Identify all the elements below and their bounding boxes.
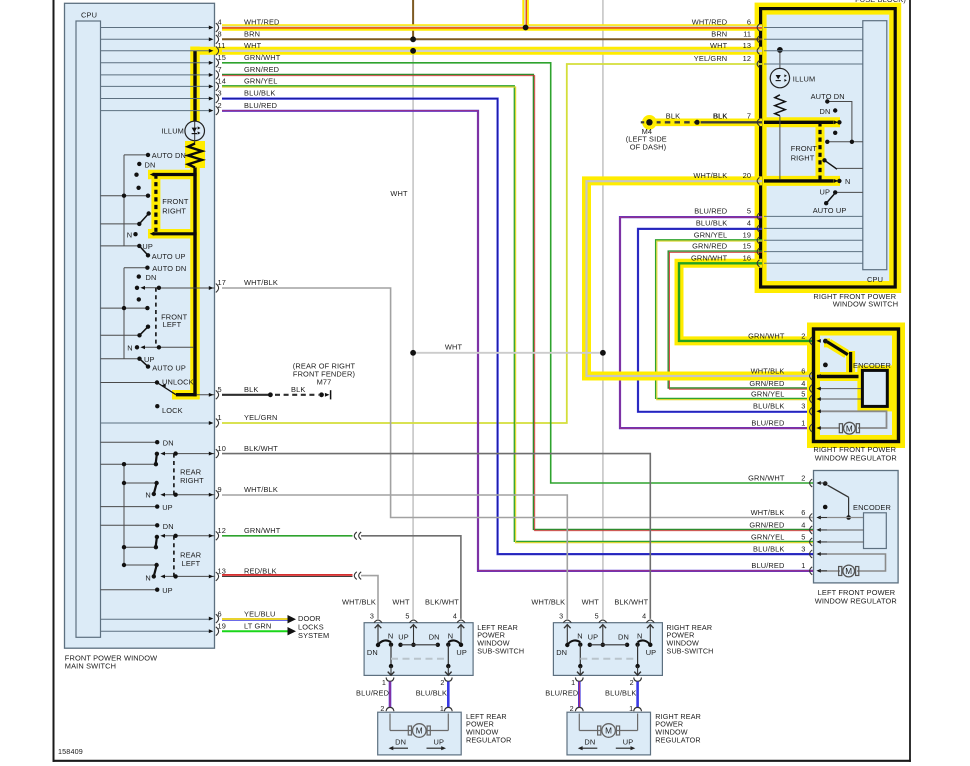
svg-text:BLK/WHT: BLK/WHT	[614, 597, 648, 606]
svg-text:WINDOW SWITCH: WINDOW SWITCH	[833, 299, 899, 308]
svg-text:GRN/RED: GRN/RED	[749, 379, 784, 388]
svg-text:6: 6	[801, 508, 805, 517]
svg-text:N: N	[127, 231, 133, 240]
svg-text:N: N	[637, 631, 643, 640]
svg-text:ENCODER: ENCODER	[853, 361, 891, 370]
svg-text:WHT: WHT	[244, 41, 262, 50]
svg-text:CPU: CPU	[867, 275, 883, 284]
svg-text:9: 9	[218, 485, 222, 494]
svg-text:N: N	[845, 177, 851, 186]
svg-text:M: M	[846, 424, 853, 433]
svg-text:GRN/RED: GRN/RED	[244, 65, 279, 74]
svg-text:BLK: BLK	[713, 111, 727, 120]
svg-text:M: M	[416, 727, 423, 736]
svg-text:4: 4	[453, 612, 457, 621]
svg-text:DN: DN	[395, 737, 406, 746]
svg-text:2: 2	[380, 704, 384, 713]
svg-text:UP: UP	[162, 503, 173, 512]
svg-text:10: 10	[218, 444, 227, 453]
svg-text:5: 5	[405, 612, 409, 621]
svg-text:2: 2	[801, 473, 805, 482]
svg-text:2: 2	[630, 678, 634, 687]
svg-text:BLU/BLK: BLU/BLK	[605, 689, 636, 698]
svg-text:AUTO UP: AUTO UP	[152, 364, 186, 373]
svg-text:BLU/RED: BLU/RED	[545, 689, 578, 698]
svg-text:RIGHT: RIGHT	[180, 476, 204, 485]
svg-text:BLU/BLK: BLU/BLK	[753, 402, 784, 411]
svg-text:N: N	[145, 491, 151, 500]
svg-text:WINDOW REGULATOR: WINDOW REGULATOR	[815, 596, 897, 605]
svg-text:DN: DN	[163, 522, 174, 531]
svg-text:UP: UP	[588, 633, 599, 642]
svg-text:WHT/BLK: WHT/BLK	[531, 597, 565, 606]
svg-text:OF DASH): OF DASH)	[630, 142, 667, 151]
svg-text:BRN: BRN	[244, 30, 260, 39]
svg-text:BLU/BLK: BLU/BLK	[753, 544, 784, 553]
svg-text:N: N	[388, 631, 394, 640]
svg-text:GRN/YEL: GRN/YEL	[694, 230, 728, 239]
svg-text:AUTO UP: AUTO UP	[152, 252, 186, 261]
svg-text:WHT: WHT	[582, 597, 600, 606]
svg-text:BLU/BLK: BLU/BLK	[696, 218, 727, 227]
svg-text:FRONT: FRONT	[162, 197, 189, 206]
svg-text:7: 7	[218, 65, 222, 74]
svg-text:BLK: BLK	[291, 385, 305, 394]
svg-text:BLU/RED: BLU/RED	[751, 561, 784, 570]
svg-text:GRN/RED: GRN/RED	[749, 520, 784, 529]
svg-text:LEFT: LEFT	[163, 320, 182, 329]
svg-text:BLU/RED: BLU/RED	[751, 418, 784, 427]
svg-text:SUB-SWITCH: SUB-SWITCH	[477, 646, 524, 655]
svg-text:UP: UP	[646, 648, 657, 657]
svg-text:19: 19	[743, 230, 752, 239]
svg-text:WHT/RED: WHT/RED	[244, 18, 280, 27]
svg-text:GRN/WHT: GRN/WHT	[244, 526, 281, 535]
svg-text:WHT/BLK: WHT/BLK	[244, 278, 278, 287]
svg-text:15: 15	[743, 242, 752, 251]
svg-text:UNLOCK: UNLOCK	[162, 378, 194, 387]
svg-text:158409: 158409	[58, 747, 83, 756]
svg-text:LOCK: LOCK	[162, 406, 183, 415]
svg-text:ILLUM: ILLUM	[793, 75, 816, 84]
svg-text:3: 3	[218, 89, 222, 98]
svg-text:GRN/YEL: GRN/YEL	[244, 77, 278, 86]
svg-text:12: 12	[743, 54, 752, 63]
svg-text:UP: UP	[434, 737, 445, 746]
svg-text:17: 17	[218, 278, 227, 287]
svg-text:5: 5	[218, 385, 222, 394]
svg-text:BLK/WHT: BLK/WHT	[425, 597, 459, 606]
svg-text:3: 3	[559, 612, 563, 621]
svg-text:BRN: BRN	[711, 29, 727, 38]
svg-text:5: 5	[801, 389, 805, 398]
svg-text:FRONT: FRONT	[791, 144, 818, 153]
svg-text:RIGHT: RIGHT	[791, 153, 815, 162]
svg-text:1: 1	[801, 418, 805, 427]
svg-text:LEFT: LEFT	[182, 559, 201, 568]
svg-text:WHT/BLK: WHT/BLK	[751, 366, 785, 375]
svg-text:2: 2	[440, 678, 444, 687]
svg-text:1: 1	[218, 413, 222, 422]
svg-text:4: 4	[801, 520, 805, 529]
svg-text:N: N	[145, 574, 151, 583]
svg-text:GRN/WHT: GRN/WHT	[244, 53, 281, 62]
svg-text:11: 11	[218, 41, 226, 50]
svg-text:BLK: BLK	[244, 385, 258, 394]
svg-text:LT GRN: LT GRN	[244, 621, 271, 630]
svg-text:REGULATOR: REGULATOR	[466, 735, 511, 744]
svg-text:DN: DN	[584, 737, 595, 746]
svg-text:GRN/WHT: GRN/WHT	[748, 473, 785, 482]
svg-text:DN: DN	[367, 648, 378, 657]
svg-text:1: 1	[629, 704, 633, 713]
svg-text:DN: DN	[163, 439, 174, 448]
svg-text:RED/BLK: RED/BLK	[244, 567, 277, 576]
svg-text:1: 1	[382, 678, 386, 687]
svg-text:2: 2	[801, 331, 805, 340]
svg-text:WINDOW REGULATOR: WINDOW REGULATOR	[815, 454, 897, 463]
svg-text:WHT: WHT	[392, 597, 410, 606]
svg-text:CPU: CPU	[81, 10, 97, 19]
svg-text:15: 15	[218, 53, 227, 62]
svg-text:WHT/BLK: WHT/BLK	[244, 485, 278, 494]
svg-text:GRN/WHT: GRN/WHT	[748, 331, 785, 340]
svg-text:4: 4	[747, 218, 751, 227]
svg-text:UP: UP	[142, 242, 153, 251]
svg-text:GRN/YEL: GRN/YEL	[751, 389, 785, 398]
svg-text:2: 2	[570, 704, 574, 713]
svg-text:WHT: WHT	[710, 41, 728, 50]
svg-text:M: M	[845, 567, 852, 576]
svg-text:WHT: WHT	[445, 343, 463, 352]
svg-text:3: 3	[801, 402, 805, 411]
svg-text:MAIN SWITCH: MAIN SWITCH	[65, 662, 116, 671]
svg-text:BLU/RED: BLU/RED	[244, 101, 277, 110]
svg-text:WHT/RED: WHT/RED	[692, 18, 728, 27]
svg-text:1: 1	[571, 678, 575, 687]
svg-text:5: 5	[595, 612, 599, 621]
svg-text:M77: M77	[317, 378, 332, 387]
svg-text:DN: DN	[146, 273, 157, 282]
svg-text:WHT/BLK: WHT/BLK	[693, 171, 727, 180]
svg-text:N: N	[448, 631, 454, 640]
svg-text:5: 5	[747, 206, 751, 215]
svg-text:YEL/BLU: YEL/BLU	[244, 609, 275, 618]
svg-text:14: 14	[218, 77, 227, 86]
svg-text:SYSTEM: SYSTEM	[298, 631, 329, 640]
svg-text:SUB-SWITCH: SUB-SWITCH	[667, 646, 714, 655]
svg-text:GRN/WHT: GRN/WHT	[691, 253, 728, 262]
svg-text:12: 12	[218, 526, 227, 535]
svg-text:4: 4	[801, 379, 805, 388]
svg-text:GRN/RED: GRN/RED	[692, 242, 727, 251]
svg-text:5: 5	[801, 532, 805, 541]
svg-text:6: 6	[747, 18, 751, 27]
svg-text:3: 3	[801, 544, 805, 553]
svg-text:8: 8	[218, 30, 222, 39]
svg-text:6: 6	[218, 609, 222, 618]
svg-text:19: 19	[218, 621, 227, 630]
svg-text:BLK/WHT: BLK/WHT	[244, 444, 278, 453]
svg-text:AUTO DN: AUTO DN	[152, 151, 186, 160]
svg-text:UP: UP	[398, 633, 409, 642]
svg-text:4: 4	[218, 18, 222, 27]
svg-text:ILLUM: ILLUM	[161, 126, 184, 135]
svg-text:WHT/BLK: WHT/BLK	[342, 597, 376, 606]
svg-text:WHT: WHT	[390, 189, 408, 198]
svg-text:AUTO DN: AUTO DN	[152, 264, 186, 273]
svg-text:YEL/GRN: YEL/GRN	[244, 413, 278, 422]
svg-text:13: 13	[218, 567, 227, 576]
svg-text:7: 7	[747, 112, 751, 121]
svg-text:REGULATOR: REGULATOR	[655, 735, 700, 744]
svg-text:BLU/RED: BLU/RED	[694, 206, 727, 215]
svg-text:UP: UP	[820, 187, 831, 196]
svg-text:DN: DN	[145, 160, 156, 169]
svg-text:2: 2	[218, 101, 222, 110]
svg-text:AUTO DN: AUTO DN	[811, 92, 845, 101]
svg-text:11: 11	[743, 29, 751, 38]
svg-text:RIGHT: RIGHT	[162, 206, 186, 215]
svg-text:1: 1	[440, 704, 444, 713]
svg-text:1: 1	[801, 561, 805, 570]
svg-text:6: 6	[801, 366, 805, 375]
svg-text:GRN/YEL: GRN/YEL	[751, 532, 785, 541]
svg-text:13: 13	[743, 41, 752, 50]
svg-text:BLU/RED: BLU/RED	[356, 689, 389, 698]
svg-text:DN: DN	[429, 633, 440, 642]
svg-text:DN: DN	[556, 648, 567, 657]
svg-text:YEL/GRN: YEL/GRN	[694, 54, 728, 63]
svg-text:WHT/BLK: WHT/BLK	[751, 508, 785, 517]
svg-text:BLU/BLK: BLU/BLK	[416, 689, 447, 698]
svg-text:AUTO UP: AUTO UP	[813, 206, 847, 215]
svg-text:FUSE BLOCK): FUSE BLOCK)	[855, 0, 906, 4]
svg-text:3: 3	[370, 612, 374, 621]
svg-text:ENCODER: ENCODER	[853, 503, 891, 512]
svg-text:N: N	[577, 631, 583, 640]
svg-text:16: 16	[743, 253, 752, 262]
svg-text:M: M	[605, 727, 612, 736]
svg-text:UP: UP	[162, 586, 173, 595]
svg-text:DN: DN	[618, 633, 629, 642]
svg-text:BLK: BLK	[666, 111, 680, 120]
svg-text:20: 20	[743, 171, 752, 180]
svg-text:4: 4	[642, 612, 646, 621]
svg-text:BLU/BLK: BLU/BLK	[244, 89, 275, 98]
svg-text:UP: UP	[456, 648, 467, 657]
svg-text:UP: UP	[623, 737, 634, 746]
svg-text:N: N	[127, 343, 133, 352]
svg-text:DN: DN	[820, 107, 831, 116]
